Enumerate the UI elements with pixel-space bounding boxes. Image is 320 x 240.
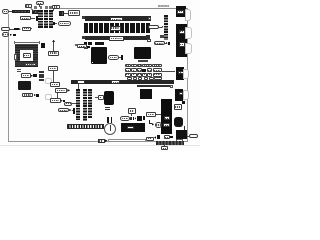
wire arrow — [31, 75, 33, 77]
CN6 label below — [176, 139, 184, 142]
ROM chip U9 (tall) — [161, 99, 172, 134]
oval label J31 — [155, 122, 162, 128]
jumper label J24 — [77, 44, 86, 48]
jumper label J3 — [20, 16, 31, 20]
capacitor C4 — [49, 6, 52, 9]
wire to edge connector — [162, 70, 175, 73]
faint rule line below board — [0, 144, 200, 147]
CPU socket U1 pin field — [15, 44, 38, 67]
connector dash — [87, 46, 90, 49]
wire arrow — [119, 56, 121, 59]
wire col1 top — [77, 84, 80, 89]
ISA slot bar 1 — [71, 80, 175, 83]
connector P4 — [33, 74, 37, 77]
wire — [30, 8, 33, 11]
wire — [52, 9, 55, 10]
wire arrow — [31, 17, 36, 20]
ISA bar2 end label — [170, 85, 173, 88]
U9 label 2 — [163, 123, 170, 127]
jumper label J20 (oval) — [58, 108, 70, 112]
SIMM bar label — [110, 17, 123, 21]
ISA slot1 label b — [111, 80, 120, 84]
battery pins — [107, 117, 109, 123]
wire — [55, 22, 58, 25]
wire arrow — [61, 100, 63, 102]
jumper label J19 (oval) — [64, 102, 72, 106]
jumper label J27 — [128, 108, 136, 114]
jumper label J35 — [146, 137, 154, 141]
wire arrow — [19, 28, 21, 30]
jumper label J17 — [55, 88, 67, 93]
oval label A1 — [148, 25, 159, 29]
battery polarity mark — [110, 125, 111, 131]
keylock connector (bowtie on bottom edge) — [98, 139, 105, 143]
SIMM bar end label — [148, 17, 151, 21]
chip U5 label — [138, 60, 148, 62]
memory slot column 1 — [76, 89, 80, 121]
jumper label J34 — [164, 135, 170, 139]
wire — [187, 135, 189, 138]
keyboard connector CN2 — [176, 6, 186, 18]
SIMM socket bank1 left cap — [82, 16, 85, 19]
CN4 bracket — [183, 69, 189, 79]
wire with up arrow — [52, 42, 55, 51]
bowtie mark — [105, 139, 108, 142]
battery BT1 — [104, 123, 116, 135]
jumper label J11 — [48, 51, 59, 56]
connector dash — [170, 136, 172, 139]
DRAM chip row bank1 — [84, 23, 88, 34]
buzzer SP1 — [174, 117, 183, 127]
wire stub — [184, 126, 185, 130]
capacitor row C1 — [34, 6, 37, 9]
wire — [95, 96, 99, 99]
board outline right edge — [186, 8, 189, 141]
connector P3 — [13, 34, 17, 36]
CPU bottom label — [25, 63, 36, 67]
board outline bottom edge — [8, 140, 188, 143]
jumper label grid row4 — [127, 77, 132, 80]
SIMM socket bank2 left cap — [82, 36, 85, 40]
ISA slot1 label a — [77, 80, 85, 84]
wire — [56, 93, 59, 98]
U9 label 1 — [164, 116, 171, 121]
CN3 bracket 2 — [185, 43, 192, 54]
jumper label J10 (oval) — [58, 21, 71, 26]
power connector CN3 — [176, 24, 187, 57]
wire — [38, 5, 41, 7]
chip U4 pin1 notch — [92, 62, 94, 64]
connector P5 — [36, 94, 39, 97]
capacitor C2 — [40, 6, 43, 9]
empty option box 2 — [45, 94, 52, 100]
jumper label J5 — [22, 27, 31, 31]
tiny cap — [75, 44, 77, 46]
jumper label J9 — [68, 10, 80, 15]
parallel connector CN5 — [175, 89, 183, 101]
CN5 tail — [182, 101, 185, 105]
power connector CN6 (bottom right) — [176, 130, 187, 139]
chip U8 — [140, 89, 152, 99]
U7 label — [127, 126, 134, 129]
SIMM socket bar bank2 — [85, 36, 150, 41]
jumper J29 — [130, 117, 132, 121]
chipset U4 — [91, 47, 107, 64]
wire — [156, 113, 161, 116]
tick — [143, 116, 145, 120]
bent wire arrow — [149, 120, 152, 125]
memory slot column 3 — [88, 89, 92, 118]
jumper label J26 (tiny) — [98, 95, 103, 100]
chip U3 — [18, 81, 31, 90]
keyboard BIOS chip U6 — [104, 91, 114, 106]
capacitor C5 — [41, 43, 45, 47]
jumper label J14 — [21, 73, 31, 78]
row: wire arrow — [154, 136, 156, 139]
chip U2 (small) — [32, 10, 38, 14]
wire — [130, 114, 133, 117]
CN5 label — [179, 92, 183, 95]
connector P6 — [73, 108, 75, 114]
CN3 label 2 — [179, 42, 185, 47]
CN4 label — [178, 71, 183, 75]
jumper label J22 (tiny) — [147, 39, 151, 43]
oscillator X1 — [59, 11, 64, 16]
CN5 bracket — [183, 90, 189, 100]
board outline top edge — [60, 7, 188, 10]
jumper label J32 — [174, 104, 182, 110]
SIMM bar2 label — [109, 36, 124, 41]
part number text above border — [158, 5, 169, 7]
oval label J25 — [108, 55, 119, 60]
jumper label J7 (oval top) — [36, 1, 44, 5]
connector P9 — [137, 116, 143, 121]
jumper label J18 — [50, 98, 61, 103]
pin header JP3 (right) — [164, 15, 169, 40]
connector P2 — [14, 28, 19, 30]
jumper label J1 (top left oval) — [2, 9, 9, 14]
jumper label J4 (oval) — [1, 27, 10, 31]
wire tick — [53, 22, 55, 25]
ISA slot bar 2 — [137, 85, 171, 88]
oval label J33 — [189, 134, 198, 138]
wire arrow — [67, 89, 70, 92]
jumper label J36 — [161, 146, 168, 150]
DRAM row label — [110, 26, 121, 31]
CPU inner label — [23, 53, 31, 58]
wire — [9, 10, 12, 13]
jumper label grid row1 — [125, 64, 131, 68]
jumper label J28 (oval) — [120, 116, 130, 121]
jumper label J2 — [25, 4, 32, 9]
connector dash — [133, 117, 135, 120]
chip U6 pins below — [105, 107, 110, 108]
jumper label J21 (tiny) — [84, 46, 88, 49]
jumper label J6 (oval) — [2, 32, 10, 37]
jumper label J8 — [52, 5, 60, 10]
DRAM chips bank2 — [84, 42, 87, 45]
jumper block JP1 column 3 — [49, 10, 53, 28]
DIP switch SW1 — [67, 124, 104, 129]
dimension line — [14, 41, 40, 44]
board outline left edge — [7, 14, 10, 142]
jumper block JP2 — [39, 71, 44, 73]
connector P8 — [121, 55, 123, 60]
jumper label J12 — [48, 66, 58, 71]
wire arrow — [165, 42, 167, 45]
empty option box 1 — [45, 78, 52, 84]
chipset U5 — [134, 47, 151, 59]
capacitor C6 — [160, 35, 164, 38]
edge connector outline — [108, 139, 146, 142]
CPU socket U1 inner well — [20, 50, 32, 61]
jumper pair J13 — [17, 69, 21, 71]
connector pair P10 — [157, 135, 160, 139]
jumper block JP1 column 2 — [44, 10, 48, 28]
CN3 bracket 1 — [185, 27, 192, 39]
wire — [72, 102, 76, 105]
capacitor C3 — [45, 6, 48, 9]
wire arrow — [34, 94, 36, 96]
power header bar — [156, 141, 184, 145]
jumper label J15 — [22, 93, 33, 98]
CPU socket notch — [14, 54, 17, 60]
oval label J23 — [154, 41, 165, 45]
CN2 port bracket — [185, 9, 191, 21]
connector dash row2 — [142, 69, 146, 73]
memory slot column 2 — [83, 89, 87, 121]
SIMM socket bar bank1 — [85, 16, 151, 21]
wire down — [52, 71, 55, 82]
wire tick — [31, 27, 33, 30]
CN3 label 1 — [179, 30, 185, 34]
wire arrow — [159, 26, 162, 29]
jumper label grid row2 — [125, 68, 131, 72]
wire arrow — [69, 109, 71, 111]
wire — [10, 28, 14, 31]
connector P7 — [168, 42, 170, 45]
connector bar CN1 — [12, 10, 30, 14]
wire arrow — [135, 117, 137, 120]
CN2 label — [177, 10, 183, 14]
SIMM bar2 end chip — [146, 35, 149, 38]
serial connector CN4 — [176, 67, 185, 80]
jumper block JP1 column 1 — [38, 10, 42, 28]
wire arrow — [10, 34, 13, 36]
keyboard controller U7 — [121, 123, 145, 132]
jumper label J30 — [146, 112, 156, 117]
jumper label J16 — [50, 82, 60, 87]
wire — [64, 12, 68, 15]
wire — [163, 145, 166, 147]
jumper label grid row3 — [125, 73, 131, 77]
pin header P1 — [36, 16, 39, 21]
